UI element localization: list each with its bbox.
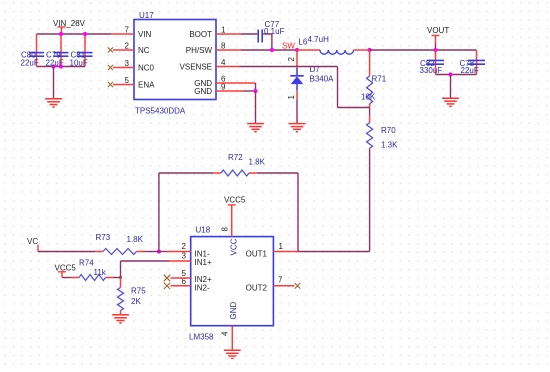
svg-text:2: 2 (125, 42, 130, 51)
svg-text:1: 1 (221, 26, 226, 35)
svg-text:10K: 10K (361, 92, 376, 101)
svg-text:L6: L6 (298, 37, 307, 46)
svg-text:R73: R73 (96, 233, 111, 242)
svg-text:1: 1 (287, 95, 296, 100)
svg-text:PH/SW: PH/SW (186, 46, 213, 55)
svg-text:VCC5: VCC5 (55, 263, 77, 272)
svg-text:5: 5 (125, 76, 130, 85)
svg-text:U17: U17 (139, 11, 154, 20)
svg-text:NC0: NC0 (138, 64, 155, 73)
svg-text:1.8K: 1.8K (127, 235, 144, 244)
svg-text:GND: GND (229, 302, 238, 320)
svg-text:IN2-: IN2- (195, 283, 210, 292)
svg-text:9: 9 (221, 83, 226, 92)
svg-text:0.1uF: 0.1uF (264, 27, 285, 36)
svg-text:4: 4 (221, 331, 230, 336)
svg-text:TPS5430DDA: TPS5430DDA (135, 107, 186, 116)
svg-text:VOUT: VOUT (427, 26, 449, 35)
svg-text:OUT2: OUT2 (246, 283, 268, 292)
svg-text:8: 8 (221, 42, 226, 51)
svg-text:OUT1: OUT1 (246, 250, 268, 259)
svg-text:8: 8 (221, 227, 230, 232)
svg-text:2: 2 (182, 242, 187, 251)
svg-text:7: 7 (278, 275, 283, 284)
svg-text:22uF: 22uF (21, 59, 39, 68)
svg-text:VCC: VCC (230, 238, 239, 255)
svg-text:2: 2 (287, 57, 296, 62)
svg-text:1: 1 (279, 242, 284, 251)
svg-text:330uF: 330uF (420, 66, 443, 75)
svg-text:R71: R71 (372, 74, 387, 83)
svg-text:ENA: ENA (138, 81, 155, 90)
svg-text:SW: SW (282, 42, 295, 51)
svg-text:IN1+: IN1+ (195, 258, 212, 267)
svg-text:1.8K: 1.8K (249, 157, 266, 166)
svg-text:R70: R70 (381, 126, 396, 135)
svg-text:7: 7 (125, 26, 130, 35)
svg-text:4: 4 (221, 58, 226, 67)
svg-text:1.3K: 1.3K (381, 141, 398, 150)
svg-text:4.7uH: 4.7uH (308, 35, 330, 44)
svg-text:GND: GND (194, 87, 212, 96)
svg-text:NC: NC (138, 46, 150, 55)
svg-text:22uF: 22uF (461, 66, 479, 75)
svg-text:BOOT: BOOT (189, 30, 212, 39)
svg-text:3: 3 (125, 59, 130, 68)
svg-text:R74: R74 (79, 259, 94, 268)
svg-text:R75: R75 (131, 287, 146, 296)
svg-text:LM358: LM358 (189, 333, 214, 342)
svg-text:VC: VC (27, 237, 38, 246)
svg-text:VIN: VIN (138, 30, 152, 39)
svg-text:3: 3 (182, 252, 187, 261)
svg-text:22uF: 22uF (46, 59, 64, 68)
svg-text:B340A: B340A (310, 75, 335, 84)
svg-text:R72: R72 (228, 153, 243, 162)
svg-text:10uF: 10uF (70, 59, 88, 68)
svg-text:VCC5: VCC5 (224, 196, 246, 205)
svg-text:U18: U18 (196, 226, 211, 235)
svg-text:11k: 11k (94, 268, 107, 277)
svg-text:2K: 2K (131, 297, 141, 306)
svg-text:VSENSE: VSENSE (180, 63, 212, 72)
